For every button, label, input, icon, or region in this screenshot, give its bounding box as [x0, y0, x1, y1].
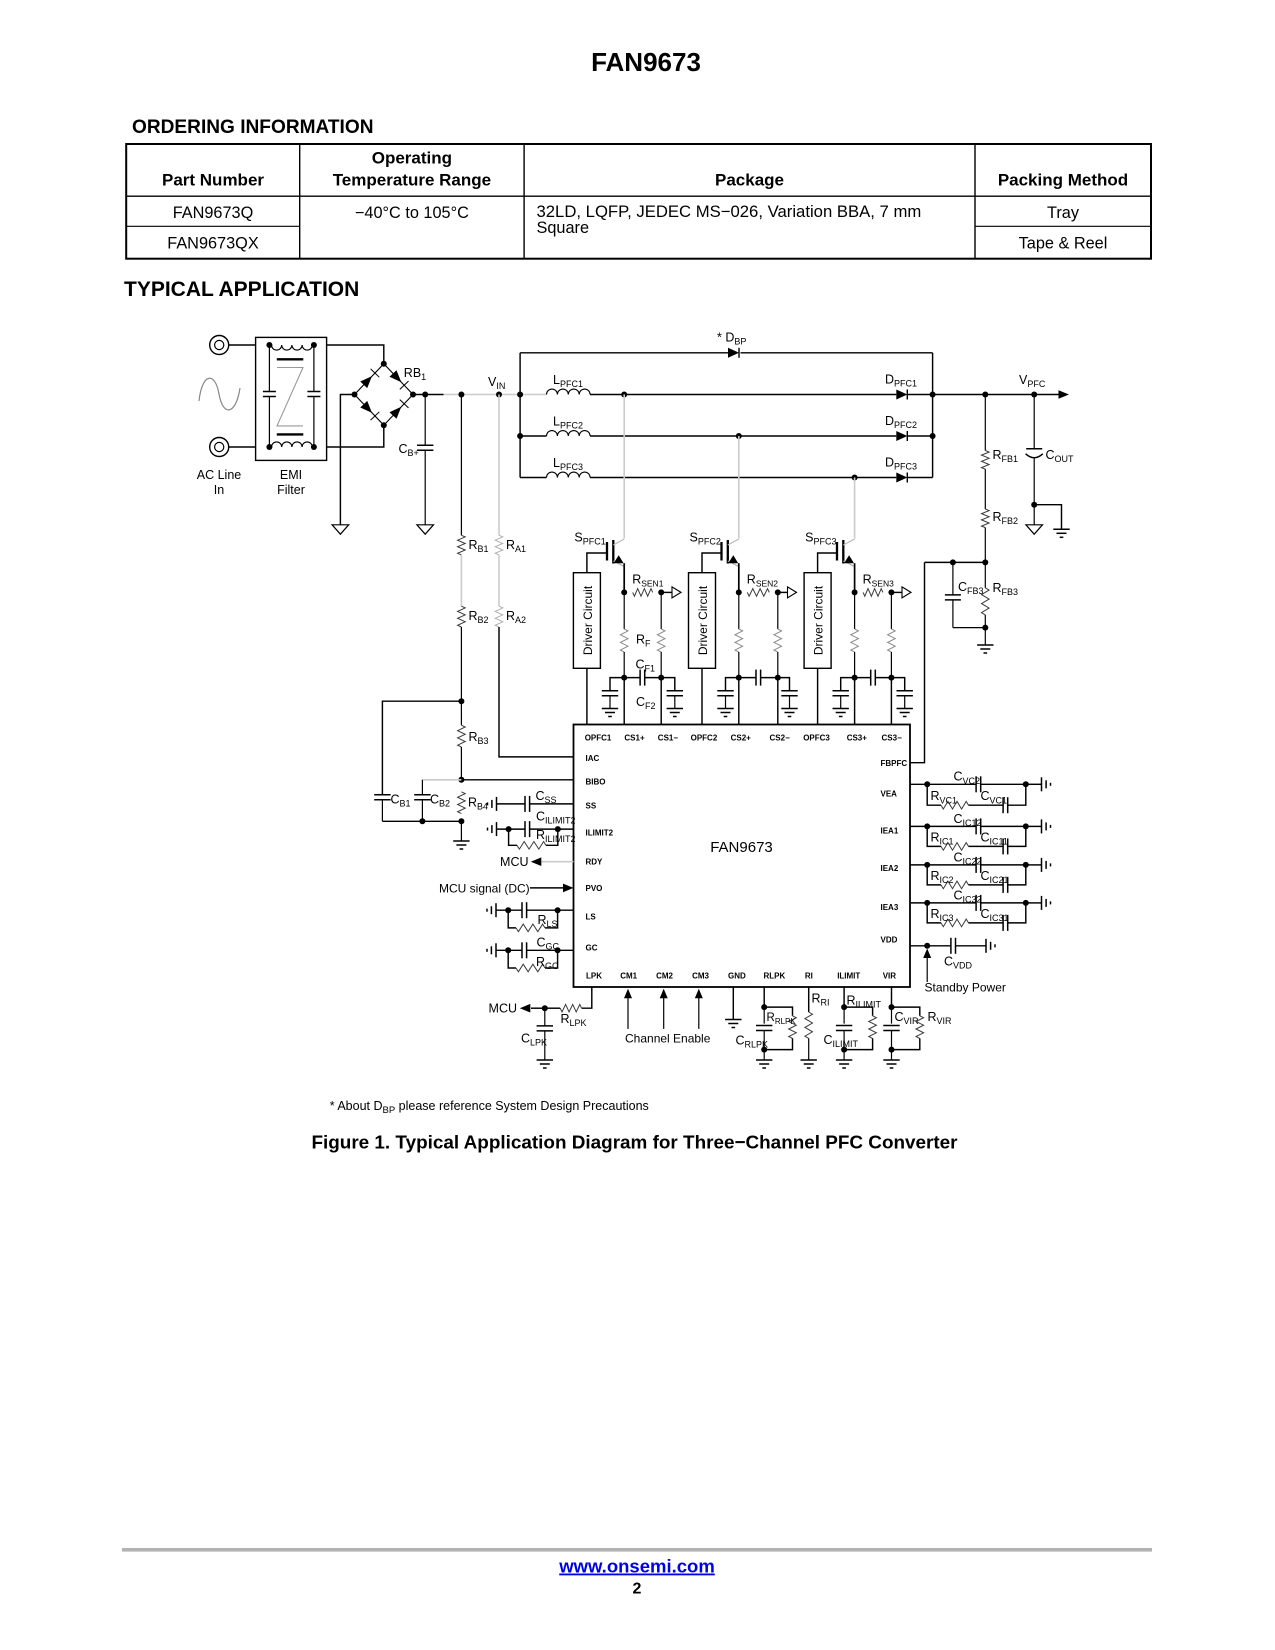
- wire VDD pin: [910, 945, 951, 947]
- svg-text:DPFC3: DPFC3: [885, 455, 917, 471]
- capacitor CF1 ch3: [855, 677, 871, 679]
- svg-text:CVDD: CVDD: [944, 955, 973, 971]
- svg-text:OPFC3: OPFC3: [803, 733, 830, 742]
- node IEA3 left: [924, 900, 930, 906]
- wire VIR pin: [891, 987, 893, 1007]
- resistor RB1 divider: [460, 395, 462, 536]
- svg-text:Driver Circuit: Driver Circuit: [696, 585, 710, 655]
- svg-text:VPFC: VPFC: [1019, 373, 1046, 389]
- capacitor CVDD: [950, 938, 952, 954]
- ground ILIMIT2: [496, 822, 498, 836]
- svg-text:CS3−: CS3−: [882, 733, 903, 742]
- capacitor CB1: [374, 794, 390, 796]
- resistor RFB3: [984, 562, 986, 587]
- node SPFC2 drain tap: [736, 433, 742, 439]
- capacitor CF2 left ch1: [610, 678, 624, 691]
- node RSEN1 left: [621, 589, 627, 595]
- svg-text:SPFC3: SPFC3: [805, 531, 836, 547]
- svg-text:GC: GC: [586, 944, 598, 953]
- svg-text:RGC: RGC: [536, 955, 559, 971]
- svg-text:Filter: Filter: [277, 483, 305, 497]
- svg-text:IEA3: IEA3: [881, 903, 899, 912]
- EMI filter right X-cap: [313, 345, 315, 392]
- svg-text:In: In: [214, 483, 224, 497]
- svg-text:RVIR: RVIR: [928, 1010, 953, 1026]
- node RB divider tap: [458, 392, 464, 398]
- wire FB node to CFB3: [925, 561, 986, 563]
- node CF row left ch1: [621, 675, 627, 681]
- svg-text:CFB3: CFB3: [958, 580, 984, 596]
- capacitor CB2: [421, 780, 423, 795]
- svg-text:MCU: MCU: [500, 855, 528, 869]
- resistor RF right ch1: [660, 592, 662, 629]
- node RSEN2 right: [775, 589, 781, 595]
- ground VEA: [1041, 777, 1043, 791]
- svg-text:www.onsemi.com: www.onsemi.com: [558, 1556, 715, 1577]
- svg-text:COUT: COUT: [1046, 448, 1075, 464]
- wire COUT to earth ground: [1034, 505, 1061, 530]
- wire SPFC1 drain gray: [623, 395, 625, 539]
- node left bus LPFC2: [517, 433, 523, 439]
- svg-text:RSEN3: RSEN3: [863, 573, 895, 589]
- svg-text:VEA: VEA: [881, 789, 898, 798]
- svg-text:RB1: RB1: [469, 538, 489, 554]
- wire GND pin: [732, 987, 734, 1020]
- svg-text:IAC: IAC: [586, 754, 600, 763]
- svg-text:CVIR: CVIR: [895, 1010, 920, 1026]
- right bus vertical wire: [932, 353, 934, 478]
- diode DBP: [728, 348, 739, 358]
- svg-text:FAN9673Q: FAN9673Q: [173, 204, 254, 222]
- svg-text:OPFC2: OPFC2: [691, 733, 718, 742]
- ground SS: [496, 797, 498, 811]
- wire CS1- rail to IC: [660, 678, 662, 725]
- transistor SPFC2: [720, 542, 722, 561]
- wire gate driver 2: [702, 553, 722, 573]
- ground CLPK: [537, 1059, 553, 1061]
- wire LPFC2 to DPFC2: [590, 435, 896, 437]
- svg-text:TYPICAL APPLICATION: TYPICAL APPLICATION: [124, 278, 359, 301]
- svg-text:AC Line: AC Line: [197, 468, 242, 482]
- svg-text:RIC1: RIC1: [931, 830, 954, 846]
- resistor RVC1: [927, 784, 941, 805]
- wire CB2 tap gray: [422, 779, 461, 781]
- capacitor CF2 right ch2: [778, 678, 790, 691]
- node LPK: [542, 1005, 548, 1011]
- svg-text:SS: SS: [586, 802, 597, 811]
- svg-text:MCU: MCU: [489, 1002, 517, 1016]
- svg-text:CSS: CSS: [536, 789, 557, 805]
- wire RLPK pin: [763, 987, 765, 1007]
- wire IEA3 to ground: [1026, 902, 1042, 904]
- svg-text:CIC12: CIC12: [954, 812, 982, 828]
- svg-text:CB+: CB+: [399, 442, 419, 458]
- ground VDD: [985, 939, 987, 953]
- capacitor CIC32: [927, 902, 976, 904]
- wire terminal top to EMI filter: [229, 344, 256, 346]
- capacitor CSS: [524, 796, 526, 812]
- svg-text:CM2: CM2: [656, 971, 673, 980]
- svg-text:CS2−: CS2−: [770, 733, 791, 742]
- svg-text:CB1: CB1: [391, 793, 411, 809]
- svg-text:Operating: Operating: [372, 148, 452, 167]
- svg-text:FAN9673: FAN9673: [591, 47, 701, 77]
- ground RFB3: [984, 628, 986, 645]
- resistor RSEN2: [747, 589, 769, 597]
- svg-text:RLPK: RLPK: [764, 971, 786, 980]
- capacitor CIC22: [927, 864, 976, 866]
- capacitor CF2 left ch2: [726, 678, 739, 691]
- svg-text:SPFC2: SPFC2: [690, 531, 721, 547]
- resistor RSEN1: [633, 589, 653, 597]
- svg-text:* About DBP please reference S: * About DBP please reference System Desi…: [330, 1099, 649, 1116]
- svg-text:CLPK: CLPK: [521, 1032, 547, 1048]
- wire RDY to MCU gray: [541, 861, 573, 863]
- svg-text:RLS: RLS: [538, 913, 558, 929]
- svg-text:IEA1: IEA1: [881, 826, 899, 835]
- svg-text:VDD: VDD: [881, 936, 898, 945]
- diode DPFC2: [896, 431, 907, 441]
- node IEA2 left: [924, 862, 930, 868]
- svg-text:OPFC1: OPFC1: [585, 733, 612, 742]
- node VEA left: [924, 781, 930, 787]
- node COUT top: [1031, 392, 1037, 398]
- wire RB2 to node: [460, 627, 462, 701]
- svg-text:RA2: RA2: [506, 609, 526, 625]
- current sense arrow 1: [661, 591, 673, 593]
- node IEA3 right: [1023, 900, 1029, 906]
- svg-text:−40°C to 105°C: −40°C to 105°C: [355, 204, 469, 222]
- transistor SPFC3: [836, 542, 838, 561]
- IC FAN9673 body: [574, 725, 911, 988]
- inductor LPFC2: [520, 435, 546, 437]
- wire BIBO to IC: [461, 779, 573, 781]
- bridge diode upper-left: [360, 376, 372, 388]
- svg-text:RDY: RDY: [586, 858, 604, 867]
- wire IEA1 to ground: [1026, 825, 1042, 827]
- capacitor CFB3: [952, 562, 954, 595]
- wire CS1+ rail to IC: [623, 678, 625, 725]
- bridge rectifier RB1 diamond: [355, 364, 414, 425]
- svg-text:EMI: EMI: [280, 468, 302, 482]
- wire ILIMIT2 pin: [497, 828, 526, 830]
- svg-text:RVC1: RVC1: [931, 789, 958, 805]
- ground COUT triangle: [1033, 505, 1035, 525]
- ground CILIMIT: [836, 1059, 852, 1061]
- left bus vertical wire: [519, 353, 521, 478]
- node RFB3 bottom: [982, 625, 988, 631]
- capacitor CVC1: [969, 804, 1004, 806]
- svg-text:FBPFC: FBPFC: [881, 759, 908, 768]
- svg-text:Driver Circuit: Driver Circuit: [581, 585, 595, 655]
- svg-text:32LD, LQFP, JEDEC MS−026, Vari: 32LD, LQFP, JEDEC MS−026, Variation BBA,…: [537, 202, 922, 221]
- svg-text:Tape & Reel: Tape & Reel: [1019, 234, 1108, 252]
- svg-text:Driver Circuit: Driver Circuit: [812, 585, 826, 655]
- channel enable arrows CM1 CM2 CM3: [627, 998, 629, 1029]
- svg-text:CF1: CF1: [636, 658, 656, 674]
- svg-text:Square: Square: [537, 219, 590, 237]
- capacitor CRLPK: [763, 1007, 765, 1024]
- wire LPK to MCU: [531, 1007, 545, 1009]
- svg-text:RFB2: RFB2: [993, 510, 1019, 526]
- node CF row right ch3: [888, 675, 894, 681]
- wire RB1 to RB2 gray: [460, 555, 462, 606]
- node CILIMIT bottom: [841, 1047, 847, 1053]
- wire IEA2 to ground: [1026, 864, 1042, 866]
- node RSEN3 right: [888, 589, 894, 595]
- wire VIN rail gray: [444, 394, 547, 396]
- svg-text:IEA2: IEA2: [881, 864, 899, 873]
- wire SS pin: [497, 803, 526, 805]
- resistor RFB1: [984, 395, 986, 451]
- bridge diode lower-right: [390, 407, 402, 419]
- svg-text:CB2: CB2: [430, 793, 450, 809]
- resistor RF right ch2: [777, 592, 779, 629]
- ordering table frame: [126, 144, 1151, 259]
- wire driver 3 to OPFC3 pin: [817, 668, 819, 724]
- wire LPFC3 to DPFC3: [590, 477, 896, 479]
- ground CRLPK: [756, 1059, 772, 1061]
- current sense arrow 3: [891, 591, 903, 593]
- capacitor CIC12: [927, 825, 976, 827]
- svg-text:LPK: LPK: [586, 971, 602, 980]
- resistor RGC: [508, 950, 516, 968]
- diode DPFC1: [896, 390, 907, 400]
- resistor RRI: [805, 1012, 813, 1038]
- capacitor CLPK: [544, 1008, 546, 1026]
- wire VPFC output: [933, 394, 1059, 396]
- capacitor CF2 left ch3: [841, 678, 855, 691]
- svg-text:ILIMIT: ILIMIT: [837, 971, 860, 980]
- node CFB3 top: [950, 559, 956, 565]
- node CF row right ch2: [775, 675, 781, 681]
- node left bus top: [517, 392, 523, 398]
- capacitor CILIMIT2: [524, 821, 526, 837]
- resistor RVIR: [892, 1007, 920, 1016]
- svg-text:RB4: RB4: [468, 796, 488, 812]
- wire IEA2 pin: [910, 864, 927, 866]
- resistor RF left ch3: [854, 592, 856, 629]
- diode DPFC3: [896, 473, 907, 483]
- node LS right: [555, 907, 561, 913]
- node SPFC1 drain tap: [621, 392, 627, 398]
- wire CS3+ rail to IC: [854, 678, 856, 725]
- svg-text:LPFC2: LPFC2: [553, 415, 583, 431]
- resistor RFB2: [984, 469, 986, 509]
- node IEA2 right: [1023, 862, 1029, 868]
- AC line terminal top: [210, 336, 229, 355]
- svg-text:MCU signal (DC): MCU signal (DC): [439, 881, 530, 895]
- svg-text:RB3: RB3: [469, 730, 489, 746]
- ground IEA3: [1041, 896, 1043, 910]
- node DPFC1 bus: [930, 392, 936, 398]
- svg-text:CS1−: CS1−: [658, 733, 679, 742]
- svg-text:GND: GND: [728, 971, 746, 980]
- ground LS: [495, 903, 497, 917]
- svg-text:CS3+: CS3+: [847, 733, 868, 742]
- svg-text:LPFC3: LPFC3: [553, 456, 583, 472]
- wire RA2 to IAC pin: [499, 627, 574, 757]
- svg-text:DPFC1: DPFC1: [885, 372, 917, 388]
- node VIN: [496, 392, 502, 398]
- wire FBPFC trace: [910, 562, 925, 762]
- svg-text:RFB3: RFB3: [993, 581, 1019, 597]
- inductor LPFC1: [547, 389, 591, 394]
- node RSEN2 left: [736, 589, 742, 595]
- svg-text:SPFC1: SPFC1: [574, 531, 605, 547]
- wire gate driver 3: [818, 553, 837, 573]
- wire IEA3 pin: [910, 902, 927, 904]
- svg-text:RB1: RB1: [404, 366, 426, 382]
- svg-text:CIC32: CIC32: [954, 888, 982, 904]
- arrow PVO: [563, 884, 574, 893]
- capacitor CF1 ch1: [624, 677, 640, 679]
- wire VEA to ground: [1026, 783, 1042, 785]
- node CF row left ch2: [736, 675, 742, 681]
- resistor RSEN3: [863, 589, 883, 597]
- svg-text:FAN9673QX: FAN9673QX: [167, 234, 259, 252]
- ground GND pin: [725, 1019, 741, 1021]
- resistor RA2: [495, 606, 503, 627]
- svg-text:LPFC1: LPFC1: [553, 373, 583, 389]
- resistor RILIMIT: [844, 1007, 873, 1016]
- resistor RA1: [498, 395, 500, 536]
- capacitor CIC11: [969, 845, 1004, 847]
- svg-text:RIC2: RIC2: [931, 869, 954, 885]
- svg-text:Temperature Range: Temperature Range: [333, 171, 491, 190]
- svg-text:VIR: VIR: [883, 971, 897, 980]
- wire LPK pin: [582, 987, 592, 1008]
- node CRLPK bottom: [761, 1047, 767, 1053]
- node FB divider: [982, 559, 988, 565]
- svg-text:ILIMIT2: ILIMIT2: [586, 829, 614, 838]
- standby power arrow: [926, 957, 928, 982]
- svg-text:CS1+: CS1+: [624, 733, 645, 742]
- ground bridge negative: [332, 525, 349, 534]
- resistor RB4: [458, 792, 466, 814]
- EMI filter winding junction dots: [266, 342, 272, 348]
- svg-text:CM3: CM3: [692, 971, 709, 980]
- node RFB1 top: [982, 392, 988, 398]
- node IEA1 left: [924, 823, 930, 829]
- wire CS3- rail to IC: [890, 678, 892, 725]
- wire CB loop top: [382, 701, 461, 795]
- svg-text:CIC22: CIC22: [954, 850, 982, 866]
- node CVIR bottom: [889, 1047, 895, 1053]
- wire RI pin: [808, 987, 810, 1012]
- node RB divider: [458, 698, 464, 704]
- svg-text:RF: RF: [636, 633, 651, 649]
- resistor RLPK: [560, 1004, 581, 1012]
- resistor RLS: [508, 910, 516, 928]
- resistor RB2: [458, 606, 466, 627]
- resistor RF left ch1: [623, 592, 625, 629]
- node VIR top: [889, 1004, 895, 1010]
- capacitor CLS: [521, 902, 523, 918]
- resistor RB3: [460, 701, 462, 725]
- node GC left: [505, 947, 511, 953]
- node BIBO tap: [458, 777, 464, 783]
- resistor RF right ch3: [890, 592, 892, 629]
- node ILIMIT2 right: [555, 826, 561, 832]
- ground IEA1: [1041, 819, 1043, 833]
- wire IEA1 pin: [910, 825, 927, 827]
- svg-text:CIC11: CIC11: [981, 830, 1008, 846]
- EMI filter bottom winding: [272, 442, 313, 447]
- wire driver 2 to OPFC2 pin: [701, 668, 703, 724]
- wire CS2+ rail to IC: [738, 678, 740, 725]
- svg-text:Figure 1. Typical Application: Figure 1. Typical Application Diagram fo…: [311, 1133, 958, 1154]
- svg-text:RRI: RRI: [812, 992, 830, 1008]
- svg-text:Channel Enable: Channel Enable: [625, 1032, 711, 1046]
- arrow VPFC: [1059, 390, 1070, 399]
- svg-text:RILIMIT: RILIMIT: [847, 994, 882, 1010]
- node ILIMIT top: [841, 1004, 847, 1010]
- AC line terminal bottom: [210, 438, 229, 457]
- resistor RIC1: [927, 826, 941, 846]
- svg-text:CIC31: CIC31: [981, 907, 1009, 923]
- svg-text:RI: RI: [805, 971, 813, 980]
- node DPFC2 bus: [930, 433, 936, 439]
- node RSEN1 right: [658, 589, 664, 595]
- node CB2 bottom: [419, 818, 425, 824]
- node RSEN3 left: [852, 589, 858, 595]
- ground CVIR: [883, 1059, 899, 1061]
- wire ILIMIT pin: [843, 987, 845, 1007]
- svg-text:DPFC2: DPFC2: [885, 414, 917, 430]
- EMI filter top winding: [272, 345, 313, 350]
- ground RRI: [801, 1059, 817, 1061]
- inductor LPFC3: [520, 477, 546, 479]
- node RLPK top: [761, 1004, 767, 1010]
- bridge diode upper-right: [390, 370, 402, 382]
- capacitor CIC21: [969, 884, 1004, 886]
- wire EMI filter to bridge bottom: [327, 425, 384, 447]
- svg-text:LS: LS: [586, 913, 597, 922]
- driver circuit box 2: [689, 573, 716, 669]
- svg-text:BIBO: BIBO: [586, 778, 606, 787]
- capacitor CVC2: [927, 783, 976, 785]
- svg-text:CM1: CM1: [620, 971, 637, 980]
- capacitor COUT: [1033, 395, 1035, 449]
- node VEA right: [1023, 781, 1029, 787]
- wire RA1 to RA2 gray: [498, 555, 500, 606]
- wire SPFC2 drain gray: [738, 436, 740, 539]
- svg-text:CILIMIT2: CILIMIT2: [536, 809, 576, 825]
- wire bypass diode row: [520, 352, 728, 354]
- node LS left: [505, 907, 511, 913]
- svg-text:Part Number: Part Number: [162, 171, 264, 190]
- wire EMI filter to bridge top: [327, 345, 384, 364]
- EMI filter box: [256, 337, 327, 460]
- svg-text:Package: Package: [715, 171, 784, 190]
- wire LPFC1 to DPFC1: [590, 394, 896, 396]
- wire bridge output: [413, 394, 444, 396]
- capacitor CF2 right ch3: [891, 678, 904, 691]
- svg-text:RIC3: RIC3: [931, 907, 954, 923]
- capacitor CVIR: [891, 1007, 893, 1024]
- EMI filter left X-cap: [268, 345, 270, 392]
- node CF row left ch3: [852, 675, 858, 681]
- svg-text:Packing Method: Packing Method: [998, 171, 1128, 190]
- wire terminal bottom to EMI filter: [229, 446, 256, 448]
- svg-text:2: 2: [633, 1581, 642, 1598]
- wire bridge negative to ground: [340, 395, 354, 525]
- driver circuit box 1: [573, 573, 600, 669]
- wire VEA pin: [910, 783, 927, 785]
- capacitor CILIMIT: [843, 1007, 845, 1024]
- ground IEA2: [1041, 858, 1043, 872]
